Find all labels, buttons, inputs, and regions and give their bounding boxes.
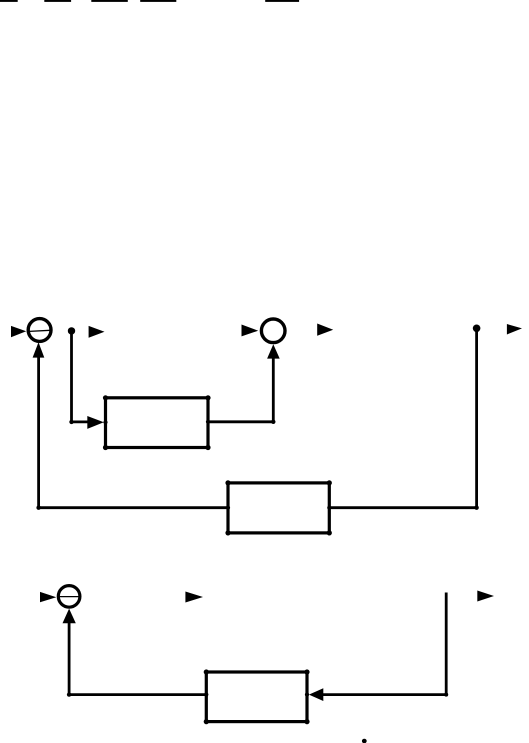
arrowhead into S2 bottom xyxy=(267,344,280,358)
arrowhead after S2 xyxy=(317,324,333,336)
arrowhead into S2 left xyxy=(242,325,259,337)
floating arrowhead mid lower xyxy=(185,592,203,603)
floating arrowhead right lower xyxy=(477,591,494,602)
summing junction S1 xyxy=(28,319,51,342)
input arrow to summing junction S3 xyxy=(40,592,56,602)
clipped text bar 2 xyxy=(44,0,71,2)
wire: corner to block W1 input xyxy=(72,420,89,423)
wire: S1 feedback vertical xyxy=(37,356,40,508)
node: corner below S3 xyxy=(67,692,71,696)
node: corner below S1 xyxy=(36,506,40,510)
arrowhead into block W3 right side xyxy=(309,688,323,701)
block W2 corner handles xyxy=(225,480,332,535)
clipped text bar 3 xyxy=(91,0,128,2)
minus bar of S1 xyxy=(27,330,53,331)
wire: feedback horizontal from block W3 xyxy=(69,693,206,696)
wire: lower right riser vertical xyxy=(445,593,448,695)
block W3 xyxy=(206,672,307,722)
node: corner lower right riser xyxy=(444,693,448,697)
wire: right riser to W3 xyxy=(322,693,446,696)
feedback arrowhead into S1 bottom xyxy=(33,342,45,357)
clipped text bar 4 xyxy=(140,0,176,2)
wire: S3 feedback vertical xyxy=(68,621,71,695)
node A (tap after S1) xyxy=(68,327,75,334)
node B (output tap) xyxy=(473,325,481,333)
wire: W1 output xyxy=(208,420,273,423)
block W1 corner handles xyxy=(103,395,211,450)
wire: node A down xyxy=(70,331,73,422)
wire: up to S2 xyxy=(272,356,275,422)
block W1 xyxy=(106,398,209,448)
feedback arrowhead into S3 bottom xyxy=(63,609,76,624)
node: corner below node A xyxy=(69,420,73,424)
summing junction S2 xyxy=(261,319,285,343)
wire: right riser up xyxy=(475,330,478,508)
input arrow to summing junction S1 xyxy=(11,326,26,337)
block W3 corner handles xyxy=(204,669,310,724)
block W2 xyxy=(228,483,329,533)
clipped text mark bottom xyxy=(362,739,367,743)
output arrowhead top right xyxy=(507,324,522,335)
minus bar of S3 xyxy=(58,596,81,598)
clipped text bar 1 xyxy=(0,0,18,2)
node: corner right riser xyxy=(474,506,478,510)
node: corner below S2 xyxy=(271,420,275,424)
summing junction S3 xyxy=(58,586,80,608)
clipped text bar 5 xyxy=(265,0,299,2)
wire: W2 output to right riser xyxy=(329,506,476,509)
arrowhead into block W1 xyxy=(87,416,104,429)
arrowhead after node A xyxy=(89,326,105,338)
wire: feedback horizontal to block W2 xyxy=(39,506,228,509)
